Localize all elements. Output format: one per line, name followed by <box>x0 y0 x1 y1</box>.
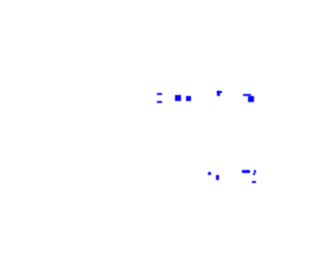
node E <box>217 91 222 93</box>
node I <box>242 170 250 173</box>
node K <box>252 181 256 183</box>
node D <box>186 96 191 101</box>
node G <box>208 172 211 175</box>
node F <box>243 94 251 96</box>
node A <box>157 93 162 95</box>
node C <box>175 95 181 101</box>
node B <box>157 101 162 103</box>
node J <box>254 170 256 173</box>
node H <box>216 175 219 180</box>
